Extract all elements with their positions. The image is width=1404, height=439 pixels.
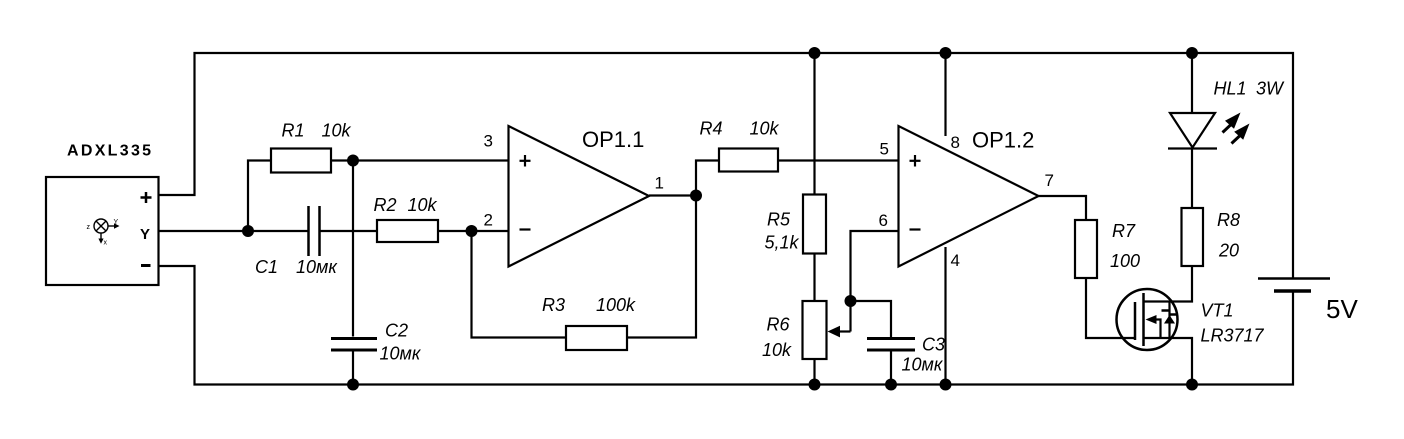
svg-text:10k: 10k: [322, 121, 352, 141]
svg-text:R6: R6: [767, 315, 791, 335]
svg-text:10мк: 10мк: [380, 344, 422, 364]
svg-text:C1: C1: [255, 257, 278, 277]
svg-text:1: 1: [655, 174, 664, 193]
svg-text:C2: C2: [385, 321, 408, 341]
svg-text:HL1: HL1: [1214, 79, 1247, 99]
svg-text:10k: 10k: [750, 119, 780, 139]
svg-text:R8: R8: [1217, 210, 1240, 230]
svg-text:10k: 10k: [762, 340, 792, 360]
svg-text:z: z: [87, 224, 91, 231]
svg-text:R2: R2: [374, 195, 397, 215]
svg-text:20: 20: [1218, 241, 1239, 261]
svg-text:3: 3: [484, 131, 493, 150]
svg-text:8: 8: [951, 133, 960, 152]
svg-text:100k: 100k: [596, 295, 636, 315]
svg-text:4: 4: [951, 251, 960, 270]
svg-text:VT1: VT1: [1201, 301, 1234, 321]
svg-text:ADXL335: ADXL335: [67, 143, 153, 160]
svg-text:R1: R1: [282, 121, 305, 141]
svg-text:R7: R7: [1112, 221, 1136, 241]
svg-text:5V: 5V: [1326, 294, 1358, 324]
svg-text:6: 6: [879, 211, 888, 230]
svg-text:OP1.2: OP1.2: [972, 128, 1034, 153]
svg-text:3W: 3W: [1256, 79, 1285, 99]
svg-text:7: 7: [1045, 171, 1054, 190]
svg-text:R4: R4: [700, 119, 723, 139]
svg-text:Y: Y: [140, 226, 150, 243]
svg-text:10мк: 10мк: [902, 355, 944, 375]
svg-text:C3: C3: [922, 335, 945, 355]
svg-text:10мк: 10мк: [296, 257, 338, 277]
svg-text:x: x: [104, 240, 108, 247]
svg-text:LR3717: LR3717: [1201, 326, 1265, 346]
svg-text:100: 100: [1110, 251, 1140, 271]
svg-text:5,1k: 5,1k: [765, 233, 800, 253]
svg-text:2: 2: [484, 210, 493, 229]
svg-text:5: 5: [880, 139, 889, 158]
svg-text:R5: R5: [767, 210, 791, 230]
svg-text:R3: R3: [542, 295, 565, 315]
svg-text:10k: 10k: [408, 195, 438, 215]
svg-text:Y: Y: [114, 219, 119, 226]
svg-text:OP1.1: OP1.1: [582, 127, 644, 152]
